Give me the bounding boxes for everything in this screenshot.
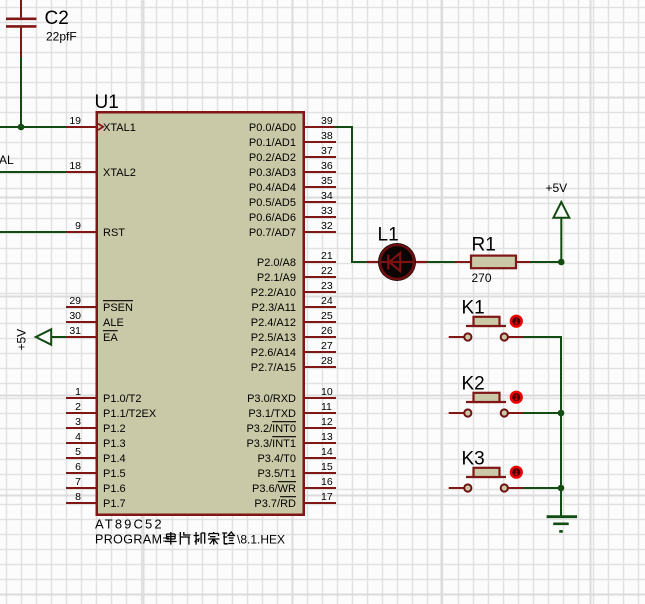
op-amp/chip U1 body [96,111,306,516]
svg-text:P2.6/A14: P2.6/A14 [251,347,296,359]
svg-text:P3.1/TXD: P3.1/TXD [248,408,296,420]
svg-text:P2.3/A11: P2.3/A11 [252,302,296,314]
U1 pin 16 (P3.6/WR) [252,476,336,495]
svg-text:11: 11 [321,401,332,413]
U1 pin 29 (PSEN) [66,295,133,314]
wire to LED anode [352,261,368,263]
U1 pin 14 (P3.4/T0) [257,446,336,465]
svg-text:XTAL1: XTAL1 [103,122,136,134]
svg-text:P2.0/A8: P2.0/A8 [257,257,296,269]
svg-text:P3.2/INT0: P3.2/INT0 [246,423,296,435]
wire R1 to +5V node [530,261,561,263]
LED L1 [367,243,427,281]
svg-text:K2: K2 [462,373,485,394]
svg-text:22: 22 [321,265,333,277]
U1 pin 15 (P3.5/T1) [257,461,336,480]
svg-text:35: 35 [321,175,333,187]
svg-text:270: 270 [472,271,492,285]
U1 pin 2 (P1.1/T2EX) [66,401,157,420]
svg-text:+5V: +5V [15,329,29,351]
U1 pin 37 (P0.2/AD2) [249,145,336,164]
U1 pin 8 (P1.7) [66,491,126,510]
svg-text:R1: R1 [472,234,496,255]
svg-text:P1.0/T2: P1.0/T2 [103,393,142,405]
svg-text:K3: K3 [462,448,485,469]
svg-text:21: 21 [321,250,333,262]
wire pin39 right [334,126,353,128]
wire node A to XTAL1 pin [20,126,66,128]
resistor R1 [455,256,532,269]
U1 pin 26 (P2.5/A13) [251,325,336,344]
svg-text:ALE: ALE [103,317,124,329]
svg-text:P1.5: P1.5 [103,468,126,480]
svg-text:37: 37 [321,145,333,157]
svg-text:XTAL2: XTAL2 [103,167,136,179]
push button K1 [449,316,524,341]
U1 pin 18 (XTAL2) [66,160,136,179]
svg-text:P2.5/A13: P2.5/A13 [251,332,296,344]
svg-text:P0.0/AD0: P0.0/AD0 [249,122,296,134]
wire rail vertical [560,336,562,517]
svg-text:27: 27 [321,340,333,352]
wire K2 to rail [523,412,561,414]
push button K2 [449,392,524,417]
wire to XTAL2 pin [0,171,66,173]
svg-text:1: 1 [75,386,81,398]
wire K3 to rail [523,487,561,489]
svg-text:P3.7/RD: P3.7/RD [254,498,296,510]
U1 pin 12 (P3.2/INT0) [246,416,336,435]
wire EA to power arrow [51,336,66,338]
svg-text:9: 9 [75,220,81,232]
XTAL1 clock chevron [98,124,103,130]
svg-text:P3.0/RXD: P3.0/RXD [247,393,296,405]
junction +5V node [558,259,565,266]
svg-text:+5V: +5V [546,181,568,195]
U1 pin 23 (P2.2/A10) [251,280,336,299]
ground [547,517,578,532]
svg-text:P0.6/AD6: P0.6/AD6 [249,212,296,224]
svg-text:P0.3/AD3: P0.3/AD3 [249,167,296,179]
svg-text:P1.7: P1.7 [103,498,126,510]
svg-text:P2.4/A12: P2.4/A12 [251,317,296,329]
svg-text:26: 26 [321,325,333,337]
svg-text:5: 5 [75,446,81,458]
U1 pin 11 (P3.1/TXD) [248,401,336,420]
svg-text:23: 23 [321,280,333,292]
U1 pin 38 (P0.1/AD1) [249,130,336,149]
U1 pin 17 (P3.7/RD) [254,491,336,510]
svg-text:17: 17 [321,491,333,503]
wire left to node A [0,126,22,128]
svg-text:P2.1/A9: P2.1/A9 [257,272,296,284]
svg-text:P3.4/T0: P3.4/T0 [257,453,296,465]
capacitor C2 [6,0,36,57]
svg-text:EA: EA [103,332,118,344]
svg-text:K1: K1 [462,297,485,318]
svg-text:P1.4: P1.4 [103,453,126,465]
svg-text:3: 3 [75,416,81,428]
svg-text:29: 29 [69,295,81,307]
svg-text:19: 19 [69,115,81,127]
svg-text:34: 34 [321,190,333,202]
svg-text:31: 31 [69,325,81,337]
U1 pin 30 (ALE) [66,310,124,329]
svg-text:P2.7/A15: P2.7/A15 [251,362,296,374]
svg-text:AL: AL [0,153,14,167]
svg-text:P3.3/INT1: P3.3/INT1 [246,438,296,450]
U1 pin 13 (P3.3/INT1) [246,431,336,450]
U1 pin 34 (P0.5/AD5) [249,190,336,209]
svg-text:14: 14 [321,446,333,458]
power +5V arrow (left, EA) [36,329,51,344]
U1 pin 4 (P1.3) [66,431,126,450]
svg-text:15: 15 [321,461,333,473]
svg-text:38: 38 [321,130,333,142]
U1 pin 35 (P0.4/AD4) [249,175,336,194]
junction K3 rail [558,485,565,492]
U1 pin 10 (P3.0/RXD) [247,386,336,405]
wire to RST pin [0,231,66,233]
svg-text:6: 6 [75,461,81,473]
svg-text:P3.6/WR: P3.6/WR [252,483,296,495]
U1 pin 9 (RST) [66,220,125,239]
wire vertical to LED row [351,126,353,263]
svg-text:P1.1/T2EX: P1.1/T2EX [103,408,157,420]
svg-text:\8.1.HEX: \8.1.HEX [237,532,285,546]
svg-text:P3.5/T1: P3.5/T1 [257,468,296,480]
junction K2 rail [558,410,565,417]
svg-text:RST: RST [103,227,125,239]
svg-text:PROGRAM=: PROGRAM= [95,532,170,546]
svg-text:12: 12 [321,416,333,428]
U1 pin 24 (P2.3/A11) [252,295,336,314]
svg-text:P1.3: P1.3 [103,438,126,450]
svg-text:U1: U1 [95,92,119,113]
U1 pin 31 (EA) [66,325,118,344]
svg-text:P0.4/AD4: P0.4/AD4 [249,182,296,194]
U1 pin 7 (P1.6) [66,476,126,495]
U1 pin 25 (P2.4/A12) [251,310,336,329]
svg-text:30: 30 [69,310,81,322]
wire LED to R1 [427,261,456,263]
svg-text:AT89C52: AT89C52 [95,516,164,531]
U1 pin 32 (P0.7/AD7) [249,220,336,239]
svg-text:7: 7 [75,476,81,488]
svg-text:P0.5/AD5: P0.5/AD5 [249,197,296,209]
U1 pin 5 (P1.4) [66,446,126,465]
U1 pin 27 (P2.6/A14) [251,340,336,359]
svg-text:2: 2 [75,401,81,413]
svg-text:16: 16 [321,476,333,488]
svg-text:25: 25 [321,310,333,322]
U1 pin 3 (P1.2) [66,416,126,435]
U1 pin 36 (P0.3/AD3) [249,160,336,179]
U1 pin 39 (P0.0/AD0) [249,115,336,134]
svg-text:P1.2: P1.2 [103,423,126,435]
wire C2 to node A [20,57,22,128]
svg-text:P1.6: P1.6 [103,483,126,495]
svg-text:P0.1/AD1: P0.1/AD1 [249,137,296,149]
push button K3 [449,467,524,492]
svg-text:P2.2/A10: P2.2/A10 [251,287,296,299]
svg-text:22pfF: 22pfF [46,30,77,44]
svg-text:13: 13 [321,431,333,443]
U1 pin 6 (P1.5) [66,461,126,480]
svg-text:24: 24 [321,295,333,307]
wire K1 to rail [523,336,562,338]
svg-text:C2: C2 [45,8,69,29]
svg-text:33: 33 [321,205,333,217]
U1 pin 19 (XTAL1) [66,115,136,134]
svg-text:28: 28 [321,355,333,367]
U1 pin 28 (P2.7/A15) [251,355,336,374]
svg-text:39: 39 [321,115,333,127]
svg-text:32: 32 [321,220,333,232]
junction node A [18,124,25,131]
svg-text:36: 36 [321,160,333,172]
svg-text:18: 18 [69,160,81,172]
svg-text:P0.2/AD2: P0.2/AD2 [249,152,296,164]
power +5V arrow (right) [560,217,562,264]
svg-text:L1: L1 [378,225,399,246]
label Chinese program path glyphs [165,532,234,545]
U1 pin 22 (P2.1/A9) [257,265,336,284]
svg-text:8: 8 [75,491,81,503]
U1 pin 1 (P1.0/T2) [66,386,142,405]
svg-text:PSEN: PSEN [103,302,133,314]
U1 pin 33 (P0.6/AD6) [249,205,336,224]
svg-text:P0.7/AD7: P0.7/AD7 [249,227,296,239]
U1 pin 21 (P2.0/A8) [257,250,336,269]
svg-text:10: 10 [321,386,333,398]
svg-text:4: 4 [75,431,81,443]
